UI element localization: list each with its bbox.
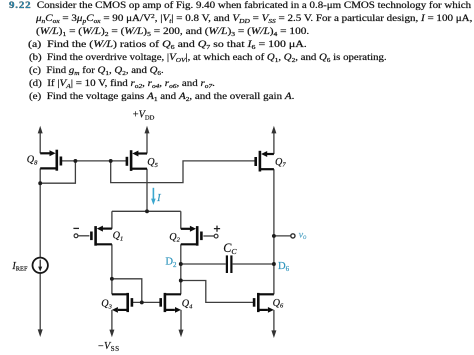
capacitor Cc — [227, 255, 232, 273]
wire output to vo terminal — [274, 235, 291, 237]
wire Q2 gate lead — [203, 235, 214, 237]
wire tail rail — [112, 210, 181, 212]
node dot bias-jog — [109, 159, 113, 163]
plus sign above Q2 input — [214, 226, 220, 232]
node D6 — [272, 262, 276, 266]
wire Q3-Q4 gate line — [132, 301, 161, 303]
wire Cc right plate to D6 — [233, 263, 274, 265]
wire Q6 gate route — [181, 281, 254, 303]
wire gate bias line Q8-Q5 — [61, 160, 127, 162]
svg-text:Q5: Q5 — [147, 157, 158, 169]
transistor Q4 — [161, 293, 181, 312]
VSS arrow Q4 — [179, 330, 184, 338]
svg-text:Q2: Q2 — [169, 232, 180, 244]
svg-text:Q8: Q8 — [27, 155, 38, 167]
svg-text:Q6: Q6 — [273, 298, 284, 310]
transistor Q8 — [40, 150, 61, 171]
wire Q3 source to VSS — [111, 310, 113, 332]
node dot bias-diode — [73, 159, 77, 163]
svg-text:IREF: IREF — [11, 261, 28, 273]
node dot D1 — [110, 277, 114, 281]
svg-text:Q4: Q4 — [182, 299, 193, 311]
input terminal Q1 (minus) — [74, 234, 78, 238]
svg-text:vo: vo — [299, 229, 307, 241]
wire Q3 diode connection — [112, 279, 142, 303]
transistor Q5 — [127, 150, 147, 171]
wire VDD arrow to Q5 source — [146, 132, 148, 154]
svg-text:D6: D6 — [278, 261, 290, 273]
VSS arrow Q6 — [271, 330, 276, 338]
output terminal vo — [291, 234, 295, 238]
wire D2 to Cc left plate — [181, 263, 226, 265]
wire VDD arrow to Q7 source — [273, 132, 275, 155]
svg-text:−VSS: −VSS — [98, 341, 119, 353]
wire VDD arrow to Q8 source — [39, 132, 41, 154]
svg-text:Q7: Q7 — [275, 157, 286, 169]
svg-text:+VDD: +VDD — [133, 109, 155, 121]
wire Q2 drain to Q4 drain (D2 rail) — [180, 244, 182, 294]
wire Q7 drain / output rail — [273, 169, 275, 294]
wire Q1 gate lead — [78, 235, 90, 237]
VDD arrow Q7 — [271, 126, 276, 134]
VSS arrow Q3 — [109, 330, 114, 338]
problem text — [9, 1, 471, 11]
current source IREF — [33, 258, 48, 273]
wire Q5 drain to tail node — [146, 169, 148, 212]
wire IREF to VSS — [39, 273, 41, 331]
transistor Q1 — [91, 226, 112, 246]
wire Q8 drain to IREF — [39, 168, 41, 257]
wire Q4 source to VSS — [180, 310, 182, 332]
svg-text:CC: CC — [223, 241, 237, 256]
wire Q1 source riser — [111, 211, 113, 229]
VSS arrow IREF — [38, 329, 43, 337]
wire Q8 diode loop — [40, 161, 75, 183]
node dot vo — [272, 234, 276, 238]
node D2 — [179, 262, 183, 266]
transistor Q7 — [256, 151, 274, 172]
VDD arrow Q8 — [38, 126, 43, 134]
input terminal Q2 (plus) — [214, 234, 218, 238]
svg-text:Q1: Q1 — [113, 231, 124, 243]
node dot tail — [145, 209, 149, 213]
current arrow I (blue) — [152, 188, 154, 200]
node dot Q8 drain / IREF — [38, 181, 42, 185]
wire Q6 source to VSS — [273, 310, 275, 332]
svg-text:I: I — [156, 192, 162, 204]
svg-text:Q3: Q3 — [101, 299, 112, 311]
transistor Q3 — [112, 293, 132, 312]
svg-text:D2: D2 — [165, 257, 177, 269]
wire Q1 drain to Q3 drain — [111, 244, 113, 294]
VDD arrow Q5 — [145, 126, 150, 134]
transistor Q6 — [254, 293, 274, 312]
node dot Q3/Q4 gates — [140, 300, 144, 304]
wire bias jog to Q7 gate — [111, 161, 256, 183]
wire Q2 source riser — [180, 211, 182, 229]
transistor Q2 — [181, 226, 202, 246]
node dot Q6 gate tap — [179, 279, 183, 283]
